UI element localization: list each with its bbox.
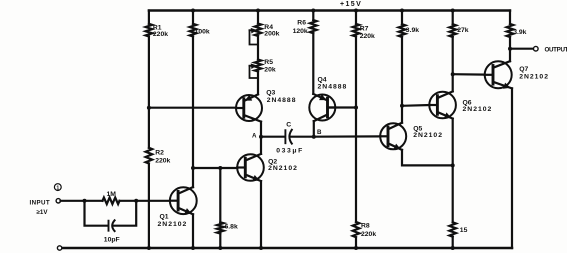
svg-text:200k: 200k xyxy=(264,31,279,38)
svg-text:Q7: Q7 xyxy=(519,66,528,73)
svg-text:3.9k: 3.9k xyxy=(406,27,419,34)
svg-text:2N4888: 2N4888 xyxy=(318,84,348,91)
svg-text:220k: 220k xyxy=(155,157,170,164)
svg-text:Q1: Q1 xyxy=(160,214,169,221)
svg-text:15: 15 xyxy=(460,227,468,234)
svg-text:20k: 20k xyxy=(264,66,276,73)
svg-text:3.9k: 3.9k xyxy=(513,29,526,36)
svg-text:27k: 27k xyxy=(457,27,469,34)
svg-text:220k: 220k xyxy=(360,33,375,40)
svg-text:+15V: +15V xyxy=(340,1,362,8)
svg-text:B: B xyxy=(317,129,322,136)
svg-text:2N2102: 2N2102 xyxy=(519,74,549,81)
svg-text:120k: 120k xyxy=(293,28,308,35)
svg-text:R6: R6 xyxy=(297,20,306,27)
svg-text:2N2102: 2N2102 xyxy=(158,221,188,228)
svg-text:2N2102: 2N2102 xyxy=(463,106,493,113)
svg-text:≥1V: ≥1V xyxy=(37,209,49,216)
svg-text:100k: 100k xyxy=(195,28,210,35)
svg-text:C: C xyxy=(286,122,291,129)
svg-text:INPUT: INPUT xyxy=(30,199,51,206)
svg-text:A: A xyxy=(252,133,257,140)
svg-text:2N2102: 2N2102 xyxy=(268,165,298,172)
svg-text:R5: R5 xyxy=(264,59,273,66)
svg-text:R7: R7 xyxy=(360,25,369,32)
svg-text:6.8k: 6.8k xyxy=(225,223,238,230)
svg-text:R8: R8 xyxy=(361,223,370,230)
svg-text:Q3: Q3 xyxy=(266,90,275,97)
svg-text:2N4888: 2N4888 xyxy=(267,97,297,104)
svg-text:10pF: 10pF xyxy=(104,236,120,243)
svg-text:220k: 220k xyxy=(361,231,376,238)
svg-text:1: 1 xyxy=(56,185,59,191)
svg-text:220k: 220k xyxy=(153,31,168,38)
svg-text:OUTPUT: OUTPUT xyxy=(545,46,567,53)
svg-text:033μF: 033μF xyxy=(276,148,304,155)
svg-text:1M: 1M xyxy=(107,191,117,198)
svg-text:Q4: Q4 xyxy=(318,76,327,83)
svg-text:2N2102: 2N2102 xyxy=(413,132,443,139)
svg-text:R2: R2 xyxy=(155,149,164,156)
